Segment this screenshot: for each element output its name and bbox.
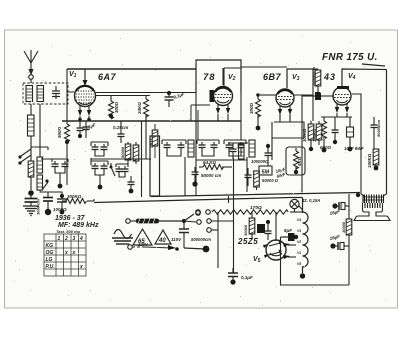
svg-text:0,25cm: 0,25cm <box>113 125 128 130</box>
capacitor C6 0.25 <box>118 121 125 143</box>
wire <box>241 66 287 68</box>
wire 6B7 plate loop <box>272 114 304 160</box>
svg-text:8μF: 8μF <box>284 228 292 233</box>
wire <box>301 95 303 193</box>
junction <box>356 193 360 197</box>
svg-text:x: x <box>79 264 83 270</box>
svg-text:40: 40 <box>158 238 166 244</box>
svg-text:24KΩ: 24KΩ <box>137 102 142 115</box>
wire lamp stub <box>294 209 296 213</box>
IF transformer group 3 <box>224 140 246 156</box>
svg-text:50000 Ω: 50000 Ω <box>262 178 279 183</box>
resistor R22 on right drop <box>346 194 352 285</box>
coil L1 <box>26 86 33 102</box>
svg-text:LG: LG <box>46 257 53 263</box>
svg-text:6B7: 6B7 <box>263 72 282 82</box>
capacitor C20 8uF <box>281 233 298 241</box>
svg-text:V4: V4 <box>348 73 356 81</box>
resistor R12 100k vert <box>308 121 314 151</box>
antenna terminal <box>29 75 34 80</box>
tube V5 arrows <box>263 243 296 259</box>
filament chain <box>303 212 309 273</box>
box 5M <box>259 166 272 176</box>
grid cap 43 <box>315 92 321 100</box>
svg-text:3: 3 <box>73 236 76 242</box>
resistor R14 boxed <box>313 69 321 92</box>
resistor R4 <box>65 121 70 185</box>
wire <box>240 118 242 140</box>
IF transformer group 1 <box>162 140 186 156</box>
svg-text:300KΩ: 300KΩ <box>302 128 307 142</box>
svg-text:300Ω: 300Ω <box>114 101 119 113</box>
resistor R16 <box>373 149 379 170</box>
coil L5 <box>188 140 194 157</box>
terminal <box>206 210 211 215</box>
oscillator box <box>150 136 160 196</box>
svg-text:Tast. 500 mμ: Tast. 500 mμ <box>56 229 81 234</box>
coil L3 <box>28 115 35 136</box>
wire <box>361 194 387 196</box>
grid side cap V2 <box>210 90 215 102</box>
capacitor C13 <box>371 117 378 149</box>
capacitor C25 <box>43 192 53 215</box>
svg-text:600Ω: 600Ω <box>320 145 332 150</box>
svg-text:64.KΩ: 64.KΩ <box>203 160 217 165</box>
svg-text:50000: 50000 <box>120 146 125 158</box>
resistor R19 300k <box>62 199 94 204</box>
resistor R21 170ohm line <box>212 210 303 214</box>
capacitor C16 <box>245 168 252 186</box>
wire verticals center <box>141 121 143 197</box>
wire <box>95 95 150 97</box>
wire <box>30 79 32 83</box>
wire <box>195 93 197 196</box>
bottom right return box <box>281 237 350 285</box>
capacitor C12 electrolytic <box>347 117 354 151</box>
wire <box>30 104 32 115</box>
svg-text:x: x <box>72 250 76 256</box>
resistor R17 5k boxed region <box>286 147 305 175</box>
resistor R15 600ohm <box>322 117 327 152</box>
resistor R20 <box>130 219 186 224</box>
IF can trimmers second pair <box>91 161 108 189</box>
fuse triangle 40 <box>155 230 171 244</box>
wire <box>240 93 242 118</box>
wire Y split <box>184 214 196 222</box>
wire <box>294 94 313 96</box>
svg-text:6A7: 6A7 <box>98 72 117 82</box>
svg-text:V5: V5 <box>297 262 301 266</box>
svg-text:200000cm: 200000cm <box>311 66 316 87</box>
tube V4 <box>333 87 351 105</box>
svg-text:300Ω: 300Ω <box>249 102 254 114</box>
svg-text:KG: KG <box>46 243 54 249</box>
speaker coil hatch <box>365 203 380 208</box>
coil L7 <box>239 144 245 159</box>
tube V2 legs <box>216 104 230 121</box>
svg-text:110V: 110V <box>171 237 182 242</box>
wire <box>90 158 92 161</box>
svg-text:V4: V4 <box>297 218 301 222</box>
table text <box>46 236 84 270</box>
tube V2 <box>214 87 233 106</box>
capacitor C14 <box>265 144 272 166</box>
svg-text:170Ω: 170Ω <box>250 205 262 211</box>
terminal <box>207 228 212 233</box>
resistor bank above V5 <box>249 212 255 238</box>
wire mid bus <box>62 120 241 122</box>
svg-text:25Z5: 25Z5 <box>237 237 258 246</box>
IF can trimmers left pair <box>91 142 108 156</box>
coil L8 <box>37 157 43 173</box>
transformer primary hatch <box>363 195 384 204</box>
terminal <box>197 220 202 225</box>
switch S1 <box>18 149 31 159</box>
IF transformer group 2 <box>197 140 219 156</box>
junction <box>300 273 305 278</box>
capacitor C18 <box>179 221 189 248</box>
wire <box>321 95 334 97</box>
svg-text:V1: V1 <box>69 71 77 79</box>
terminal column right <box>196 210 201 215</box>
wire <box>312 69 314 121</box>
wire riser <box>228 196 230 203</box>
wire <box>228 142 248 144</box>
wire right edge <box>386 70 388 195</box>
wire <box>184 157 186 196</box>
trimmer pair C8 <box>116 164 129 177</box>
capacitor C1 <box>52 86 60 99</box>
tube V3 6B7 partial box <box>287 69 313 88</box>
svg-text:MF: 489 kHz: MF: 489 kHz <box>58 222 99 229</box>
tube V1 legs <box>78 105 91 121</box>
junction big <box>203 246 210 253</box>
antenna <box>24 50 38 74</box>
svg-text:10000: 10000 <box>341 221 346 233</box>
speck noise <box>10 36 391 306</box>
tube V1 6A7 <box>75 86 96 107</box>
terminal <box>196 211 201 216</box>
svg-text:x: x <box>64 250 68 256</box>
svg-text:1000Ω: 1000Ω <box>53 207 67 212</box>
svg-text:100KΩ: 100KΩ <box>367 153 372 168</box>
svg-text:4: 4 <box>79 236 83 242</box>
capacitor C17 <box>57 194 67 215</box>
junction <box>28 190 34 196</box>
svg-text:V3: V3 <box>297 229 301 233</box>
svg-text:V2: V2 <box>228 74 236 82</box>
tube V5 25Z5 <box>266 240 286 260</box>
capacitor C4 <box>77 121 84 138</box>
wire long B+ bus <box>196 159 247 161</box>
terminal <box>207 219 212 224</box>
resistor R2 300 ohm <box>109 95 114 119</box>
svg-text:2: 2 <box>64 236 68 242</box>
capacitor C23 0.1uF bottom <box>228 268 238 285</box>
svg-text:4Σ. 0,15A: 4Σ. 0,15A <box>301 198 320 203</box>
switch S5 <box>42 179 49 190</box>
terminal <box>126 219 131 224</box>
resistor R10 64k <box>199 165 232 170</box>
filament labels <box>297 218 301 266</box>
wire long bus y192 <box>151 193 360 197</box>
tube V3 legs <box>278 106 292 120</box>
wire AVC bus <box>91 158 151 160</box>
resistor R11 <box>256 93 261 130</box>
capacitor C9 <box>128 176 135 193</box>
wire V2 grid top <box>222 68 224 85</box>
coil L2 <box>37 86 44 102</box>
svg-text:0,1μF: 0,1μF <box>241 275 253 280</box>
wire <box>281 236 289 238</box>
wire <box>67 69 75 121</box>
svg-text:50000 cm: 50000 cm <box>201 173 221 178</box>
svg-text:300KΩ: 300KΩ <box>67 194 82 199</box>
svg-text:100KΩ: 100KΩ <box>312 128 317 142</box>
capacitor C5 <box>83 121 90 138</box>
wire <box>191 105 210 140</box>
wire <box>233 158 235 273</box>
svg-text:OG: OG <box>46 250 54 256</box>
switch S4 <box>132 245 179 251</box>
svg-text:P.U.: P.U. <box>46 264 55 270</box>
trimmer pair C24 <box>52 159 69 188</box>
wire <box>260 94 276 96</box>
resistor R18 <box>254 171 260 190</box>
wire <box>362 64 385 66</box>
wire <box>145 121 147 159</box>
svg-text:78: 78 <box>203 72 216 83</box>
svg-text:V1: V1 <box>297 251 301 255</box>
wire long bus y199 <box>94 198 303 213</box>
capacitor C21 16uF top <box>332 202 349 210</box>
wire 43 cathode row <box>321 116 352 118</box>
tube V4 legs <box>335 104 349 117</box>
wire <box>30 136 32 150</box>
resistor R5 50000 <box>125 142 131 164</box>
capacitor C2 <box>25 193 38 206</box>
antenna coupler dashed box <box>23 83 68 104</box>
resistor R1 <box>28 161 34 177</box>
wire top cap into V1 <box>83 69 88 86</box>
resistor R6 30000 <box>133 142 139 164</box>
svg-text:500Ω: 500Ω <box>57 126 62 138</box>
AC mains symbol <box>112 230 133 245</box>
capacitor C15 <box>230 143 237 159</box>
wire <box>302 95 315 97</box>
pilot lamp <box>290 199 299 208</box>
wire second column <box>31 104 48 157</box>
capacitor C10 <box>192 167 199 187</box>
ground <box>23 206 39 216</box>
wire <box>211 220 233 222</box>
resistor R3 24k <box>144 96 149 122</box>
svg-text:1: 1 <box>58 236 61 242</box>
fuse triangle 65 <box>133 229 152 245</box>
resistor R7 2k in box <box>152 124 158 158</box>
svg-text:220V: 220V <box>137 242 149 247</box>
wire V5 top <box>275 212 277 241</box>
wire <box>217 212 219 268</box>
wire <box>30 150 32 161</box>
svg-text:50000cm: 50000cm <box>376 120 381 137</box>
capacitor C19 8uF <box>265 220 272 240</box>
svg-text:5M: 5M <box>262 170 270 176</box>
svg-text:100000Ω: 100000Ω <box>251 159 269 164</box>
wire <box>30 177 32 190</box>
svg-text:V3: V3 <box>292 74 300 82</box>
tube V3 <box>276 89 294 107</box>
svg-text:2KΩ: 2KΩ <box>149 138 154 149</box>
tube V4 43 box <box>342 69 387 86</box>
svg-text:1936 - 37: 1936 - 37 <box>55 215 86 222</box>
wire <box>352 94 361 194</box>
wire <box>211 229 218 231</box>
svg-text:5KΩ: 5KΩ <box>297 156 302 166</box>
svg-text:500000cm: 500000cm <box>191 237 211 242</box>
svg-text:43: 43 <box>323 72 336 82</box>
capacitor C11 <box>332 117 339 144</box>
speaker body <box>354 203 390 221</box>
wire <box>246 157 248 192</box>
wire <box>184 248 205 249</box>
svg-text:FNR 175 U.: FNR 175 U. <box>322 52 378 63</box>
wire top bus <box>67 68 196 70</box>
wire lamp to chain <box>299 206 303 213</box>
svg-text:30000: 30000 <box>243 224 248 236</box>
svg-text:3000 cm: 3000 cm <box>36 199 41 215</box>
wire <box>95 92 196 94</box>
black capacitor block <box>257 224 265 233</box>
capacitor C3 0.1uF <box>165 91 174 107</box>
switch S3 <box>110 163 116 176</box>
coil L6 <box>249 140 255 157</box>
coil L9 <box>37 175 43 190</box>
band table <box>44 234 86 276</box>
resistor R13 <box>316 121 322 145</box>
terminal <box>128 245 133 250</box>
capacitor C22 16uF bottom <box>330 242 349 250</box>
svg-text:V5: V5 <box>253 256 261 264</box>
svg-text:V2: V2 <box>297 240 301 244</box>
tube V2 78 box <box>196 60 241 93</box>
wire <box>40 159 62 196</box>
switch S2 <box>18 155 31 165</box>
